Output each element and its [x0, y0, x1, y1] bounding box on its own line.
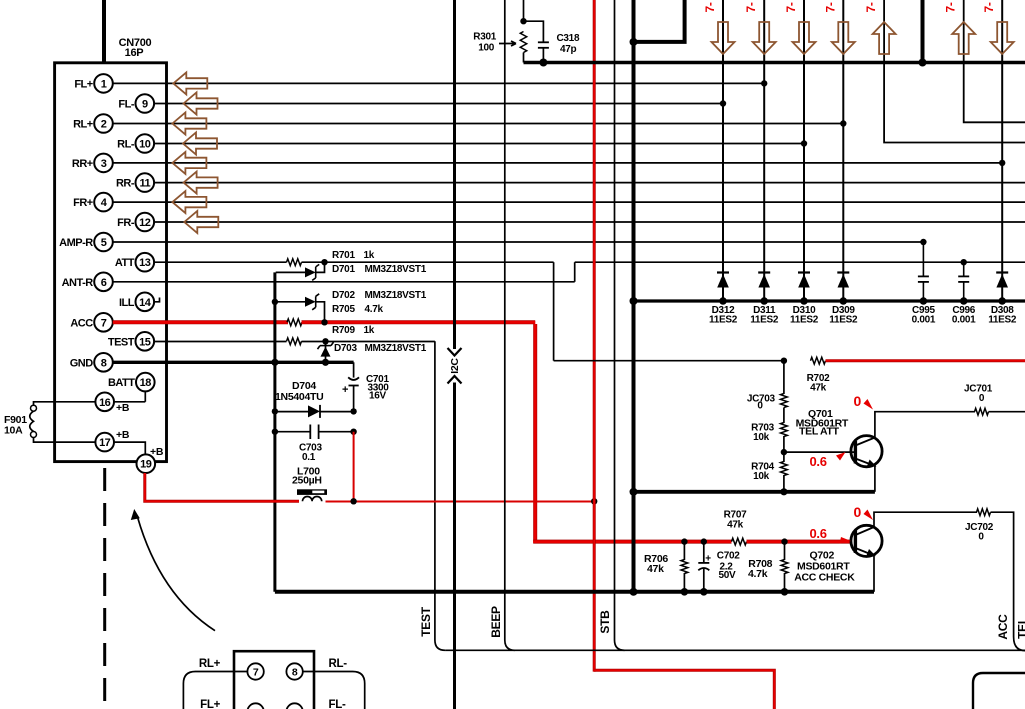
pin 6 ANT-R	[94, 273, 113, 292]
junction FL+ / D311 line	[761, 80, 767, 86]
junction RL+ / D309 line	[840, 120, 846, 126]
svg-text:+: +	[705, 554, 711, 565]
I2C bus vertical lower	[453, 383, 456, 709]
junction RR+ / D308 line	[999, 160, 1005, 166]
junction RL- / D310 line	[801, 140, 807, 146]
svg-text:+: +	[342, 384, 348, 396]
dashed vertical line below connector	[103, 468, 106, 709]
svg-text:ACC: ACC	[996, 614, 1010, 640]
wire ANT-R row	[113, 281, 575, 283]
svg-text:R705: R705	[332, 304, 355, 315]
curved arrow	[138, 517, 216, 631]
capacitor C318 47p	[538, 41, 549, 43]
wire GND row thick	[113, 361, 354, 364]
svg-text:1k: 1k	[364, 325, 375, 336]
wire GND line corner down to C701	[353, 362, 355, 377]
brown down arrow on wire x=804	[793, 22, 816, 54]
svg-text:ACC: ACC	[70, 317, 93, 329]
svg-text:2: 2	[101, 119, 107, 131]
wire C701 to +B node	[353, 386, 355, 412]
capacitor C995 0.001	[922, 242, 924, 276]
brown up arrow x=963	[952, 22, 975, 54]
svg-text:0.6: 0.6	[810, 526, 827, 541]
jumper JC701 0	[975, 408, 989, 415]
resistor R701 1k	[287, 259, 302, 266]
svg-text:ACC CHECK: ACC CHECK	[794, 572, 855, 584]
junction elbow on thick vertical	[630, 38, 638, 46]
wire R709 to TEST corner	[302, 341, 435, 343]
svg-text:FL+: FL+	[74, 78, 92, 90]
wire ATT jog down to TEL ATT line	[553, 262, 555, 361]
svg-text:STB: STB	[598, 610, 612, 634]
thick vertical bus (ILL net)	[632, 0, 636, 592]
GND bottom rail thick	[275, 590, 874, 594]
junction R704 bottom	[780, 488, 787, 495]
pin 12 FR-	[136, 213, 155, 232]
red line bottom elbow	[594, 670, 774, 709]
svg-text:250µH: 250µH	[292, 475, 322, 487]
vertical wire STB	[615, 0, 625, 650]
wire Q701 base	[784, 451, 856, 453]
diode D312 11ES2	[717, 271, 729, 273]
junction ACC / D702	[321, 319, 327, 325]
svg-text:16V: 16V	[369, 391, 387, 402]
wire JC702 to right corner down (ACC out)	[991, 512, 1025, 650]
wire ATT row to R701	[154, 261, 286, 263]
svg-text:10k: 10k	[753, 471, 770, 482]
svg-text:18: 18	[140, 377, 152, 389]
svg-text:MM3Z18VST1: MM3Z18VST1	[365, 290, 427, 301]
svg-text:0.1: 0.1	[302, 452, 316, 463]
pin 9 FL-	[136, 94, 155, 113]
junction matrix bus / thick vertical	[630, 297, 638, 305]
wire - pin18 to +B row	[144, 392, 146, 402]
svg-text:17: 17	[99, 437, 111, 449]
junction rail R708	[781, 588, 789, 596]
svg-text:8: 8	[101, 357, 107, 369]
svg-text:16P: 16P	[125, 47, 144, 59]
junction +B red at C701 branch	[350, 498, 356, 504]
junction GND / D703 anode	[322, 359, 329, 366]
wire ILL stub from pin14	[155, 298, 160, 302]
svg-text:ATT: ATT	[115, 257, 135, 269]
diode D309 11ES2	[837, 271, 849, 273]
svg-text:D702: D702	[332, 290, 355, 301]
svg-text:50V: 50V	[719, 570, 737, 581]
bottom connector pin row 2 circles (clipped)	[247, 703, 263, 709]
pin 7 ACC	[94, 313, 113, 332]
matrix wire D312	[722, 0, 724, 301]
main top bus	[524, 61, 1025, 64]
wire AMP-R row	[113, 241, 924, 243]
diode D311 11ES2	[758, 271, 770, 273]
resistor R709 1k	[287, 338, 302, 345]
transistor Q701 MSD601RT TEL ATT	[851, 436, 882, 467]
svg-text:10k: 10k	[753, 432, 770, 443]
svg-text:1: 1	[101, 78, 107, 90]
svg-text:7-: 7-	[784, 2, 798, 12]
svg-text:MM3Z18VST1: MM3Z18VST1	[365, 264, 427, 275]
wire with up arrow going right (x884)	[884, 0, 1025, 143]
svg-text:D703: D703	[334, 343, 357, 354]
junction ATT / D701	[321, 259, 327, 265]
wire ANT-R continues right on ATT level	[575, 261, 1025, 263]
pin 8 GND	[94, 353, 113, 372]
svg-text:0: 0	[978, 532, 984, 543]
junction R301/C318 top	[520, 18, 526, 24]
pin 10 RL-	[136, 134, 155, 153]
wire Q702 emitter down	[873, 554, 875, 592]
wire ACC red to R707	[533, 540, 731, 544]
wire Q701 collector up and right (JC701 line)	[875, 412, 975, 439]
svg-text:+B: +B	[116, 429, 130, 441]
svg-text:AMP-R: AMP-R	[59, 237, 93, 249]
svg-text:FL+: FL+	[200, 699, 220, 709]
matrix wire D311	[763, 0, 765, 301]
resistor R703 10k	[783, 408, 785, 424]
wire ACC red to Q702 base	[747, 540, 853, 544]
svg-text:5: 5	[101, 237, 107, 249]
brown down arrow on wire x=843.3	[832, 22, 855, 54]
pin 4 FR+	[94, 193, 113, 212]
brown left arrow speaker row	[172, 152, 206, 174]
red vertical line full height	[593, 0, 596, 672]
I2C bus vertical upper	[453, 0, 456, 349]
svg-text:RL-: RL-	[117, 139, 135, 151]
thick elbow link near top	[634, 0, 685, 42]
svg-text:BEEP: BEEP	[489, 606, 503, 638]
svg-text:D701: D701	[332, 264, 355, 275]
junction rail / thick vertical 633	[630, 588, 638, 596]
I2C marker upper chevron	[448, 348, 462, 356]
diode D310 11ES2	[798, 271, 810, 273]
wire RL- from pin8 curving down	[303, 672, 365, 709]
capacitor C701 3300 16V	[348, 377, 359, 380]
svg-text:7-: 7-	[944, 2, 958, 12]
wire RL+ row	[113, 123, 844, 125]
junction ACC / R708	[781, 538, 787, 544]
svg-text:12: 12	[139, 217, 151, 229]
svg-text:15: 15	[139, 336, 151, 348]
wire - feed from top into CN700	[102, 0, 106, 63]
wire +B red L700 to red vertical	[326, 501, 595, 503]
brown left arrow speaker row	[172, 113, 206, 135]
svg-text:FR-: FR-	[117, 217, 135, 229]
svg-text:9: 9	[142, 99, 148, 111]
junction rail C702	[700, 588, 708, 596]
svg-text:11ES2: 11ES2	[790, 315, 819, 326]
pin 15 TEST	[136, 332, 155, 351]
svg-text:R701: R701	[332, 250, 355, 261]
svg-text:1k: 1k	[364, 250, 375, 261]
wire - pin18 link down to pin16 row	[114, 401, 145, 403]
svg-text:6: 6	[101, 277, 107, 289]
wire ACC red from pin7 to R705	[113, 320, 288, 324]
wire RL+ from pin7 curving down	[183, 672, 247, 709]
wire - R301 top feed	[523, 0, 525, 22]
svg-text:I2C: I2C	[449, 358, 461, 374]
wire - fuse to pin16	[34, 402, 96, 405]
svg-text:0.001: 0.001	[952, 315, 976, 326]
svg-text:MM3Z18VST1: MM3Z18VST1	[365, 343, 427, 354]
svg-text:FL-: FL-	[118, 99, 134, 111]
svg-text:0: 0	[757, 401, 763, 412]
matrix wire D309	[842, 0, 844, 301]
resistor R707 47k on ACC line	[732, 538, 747, 545]
brown left arrow speaker row	[172, 191, 206, 213]
jumper JC702 0	[977, 509, 991, 516]
svg-text:7: 7	[101, 317, 107, 329]
wire Q702 collector up/right (JC702 line)	[874, 512, 977, 528]
svg-text:ILL: ILL	[119, 297, 135, 309]
zener diode D703 MM3Z18VST1	[325, 342, 327, 363]
bottom connector pin 8	[286, 663, 302, 679]
svg-text:RL+: RL+	[199, 658, 221, 670]
svg-text:1N5404TU: 1N5404TU	[275, 391, 323, 403]
junction GND / ground vertical	[271, 359, 278, 366]
svg-text:19: 19	[140, 459, 152, 471]
wire with up arrow going right (x963)	[964, 0, 1025, 122]
svg-text:RR+: RR+	[72, 158, 93, 170]
svg-text:7-: 7-	[744, 2, 758, 12]
svg-text:11ES2: 11ES2	[709, 315, 738, 326]
svg-text:R301: R301	[473, 32, 496, 43]
resistor R704 10k	[783, 452, 785, 462]
svg-text:47k: 47k	[727, 520, 744, 531]
pin 5 AMP-R	[94, 233, 113, 252]
Q701 emitter rail thick	[634, 490, 875, 494]
svg-text:3: 3	[101, 158, 107, 170]
junction TEL ATT / divider	[781, 358, 787, 364]
svg-text:100: 100	[478, 43, 495, 54]
I2C marker lower chevron	[448, 376, 462, 384]
connector CN700 body	[55, 63, 167, 462]
jumper JC703 0	[783, 361, 785, 394]
TEL ATT line to R702	[554, 360, 784, 362]
wire ANT-R jog up	[574, 262, 576, 282]
svg-text:13: 13	[139, 257, 151, 269]
junction ANT-R / C996	[961, 259, 967, 265]
svg-text:11ES2: 11ES2	[988, 315, 1017, 326]
svg-text:0: 0	[854, 393, 862, 409]
diode D308 11ES2	[996, 271, 1008, 273]
pin 19 circle	[137, 454, 156, 473]
svg-text:RR-: RR-	[116, 178, 135, 190]
wire FL+ row	[113, 82, 764, 84]
svg-text:TEL ATT: TEL ATT	[799, 426, 840, 438]
zener diode D701 MM3Z18VST1	[276, 271, 305, 273]
zener diode D702 MM3Z18VST1	[272, 299, 278, 305]
wire ACC red R705 to corner	[302, 320, 536, 324]
svg-text:R709: R709	[332, 325, 355, 336]
pin 13 ATT	[136, 253, 155, 272]
resistor R708 4.7k	[784, 542, 786, 560]
wire ACC red down	[533, 324, 537, 542]
pin 17 +B	[95, 433, 114, 452]
svg-text:7-: 7-	[703, 2, 717, 12]
svg-text:TEST: TEST	[108, 336, 135, 348]
wire +B red vertical C703 to L700 node	[353, 432, 355, 502]
bottom right rounded box	[973, 673, 1025, 709]
junction FL- / D312 line	[720, 100, 726, 106]
fuse F901 10A	[31, 405, 37, 411]
brown down arrow on wire x=764.2	[753, 22, 776, 54]
resistor R706 47k	[683, 542, 685, 560]
capacitor C996 0.001	[963, 262, 965, 276]
svg-text:10: 10	[139, 139, 151, 151]
wire - pin17 to pin19	[114, 442, 145, 454]
svg-text:RL+: RL+	[73, 119, 93, 131]
pin 18 BATT	[136, 373, 155, 392]
svg-text:C318: C318	[557, 33, 580, 44]
wire FR- row	[154, 221, 1025, 223]
capacitor C703 0.1	[275, 431, 310, 433]
svg-text:7-: 7-	[864, 2, 878, 12]
wire TEST row to R709	[154, 341, 286, 343]
svg-text:TEST: TEST	[419, 606, 433, 636]
junction ACC / C702	[701, 538, 707, 544]
brown left arrow speaker row	[173, 72, 207, 94]
junction C318 bottom on bus	[539, 59, 547, 67]
svg-text:16: 16	[99, 397, 111, 409]
wire - fuse to pin17	[34, 438, 96, 443]
diode D704 1N5404TU	[275, 411, 308, 413]
wire FL- row	[154, 103, 723, 105]
svg-text:47k: 47k	[810, 383, 827, 394]
wire C318 top link	[524, 21, 544, 42]
svg-text:GND: GND	[70, 357, 94, 369]
wire Q701 emitter down	[874, 464, 876, 492]
resistor R301 100 variable	[520, 32, 526, 53]
junction rail R706	[681, 588, 689, 596]
svg-text:4.7k: 4.7k	[365, 304, 384, 315]
svg-text:BATT: BATT	[108, 377, 135, 389]
pin 16 +B	[95, 393, 114, 412]
diode D308 11ES2 wire	[1001, 0, 1003, 301]
wire RR+ row	[113, 162, 1002, 164]
svg-text:0.001: 0.001	[912, 315, 936, 326]
brown left arrow speaker row	[184, 211, 218, 233]
svg-text:47k: 47k	[647, 563, 664, 575]
transistor Q702 MSD601RT ACC CHECK	[851, 525, 882, 556]
wire R701 to ATT jog	[302, 261, 554, 263]
svg-text:0: 0	[979, 393, 985, 404]
resistor R702 47k	[811, 357, 826, 364]
svg-text:RL-: RL-	[329, 658, 348, 670]
junction TEST / D703	[322, 338, 328, 344]
pin 3 RR+	[94, 154, 113, 173]
svg-text:7: 7	[253, 667, 259, 679]
svg-text:0.6: 0.6	[810, 454, 827, 469]
svg-text:FL-: FL-	[329, 699, 346, 709]
matrix wire D310	[803, 0, 805, 301]
bottom signal bus	[445, 649, 1025, 651]
ground vertical from D701 anode down to bottom rail	[273, 272, 276, 591]
svg-text:8: 8	[292, 667, 298, 679]
bottom connector body	[234, 651, 314, 709]
pin 14 ILL	[136, 293, 155, 312]
vertical wire BEEP	[505, 0, 515, 650]
junction rail / thick vertical	[630, 488, 638, 496]
pin 1 FL+	[94, 74, 113, 93]
brown down arrow on wire x=723	[712, 22, 735, 54]
junction Q701 base node	[783, 436, 785, 452]
junction AMP-R / C995	[920, 239, 926, 245]
wire RL- row	[154, 143, 804, 145]
svg-text:47p: 47p	[560, 44, 577, 55]
svg-text:10A: 10A	[4, 425, 23, 437]
junction ACC / R706	[681, 538, 687, 544]
brown left arrow speaker row	[184, 93, 218, 115]
wire FR+ row	[113, 201, 1025, 203]
svg-text:14: 14	[139, 297, 152, 309]
matrix bottom bus (thick)	[634, 299, 1025, 302]
svg-text:7-: 7-	[823, 2, 837, 12]
svg-text:TEL: TEL	[1016, 617, 1025, 639]
brown up arrow x=884	[873, 22, 896, 54]
wire RR- row	[154, 182, 1025, 184]
bottom connector pin 7	[247, 663, 263, 679]
svg-text:FR+: FR+	[73, 197, 93, 209]
red wire after R702 to edge	[826, 359, 1025, 362]
wire +B red from pin19	[145, 473, 299, 501]
brown left arrow speaker row	[183, 133, 217, 155]
svg-text:11: 11	[139, 178, 150, 190]
resistor R705 4.7k	[287, 319, 302, 326]
pin 2 RL+	[94, 114, 113, 133]
thick vertical from top to bus	[921, 0, 925, 63]
pin 11 RR-	[136, 173, 155, 192]
wire TEST down	[435, 341, 445, 650]
svg-text:C702: C702	[717, 551, 740, 562]
svg-text:+B: +B	[116, 402, 130, 414]
brown down arrow x=1002	[991, 22, 1014, 54]
junction +B red at red vertical	[591, 498, 597, 504]
svg-text:7-: 7-	[982, 2, 996, 12]
junction thick vertical / top bus	[919, 59, 927, 67]
svg-text:0: 0	[854, 504, 862, 520]
capacitor C702 2.2 50V electrolytic	[703, 542, 705, 563]
svg-text:ANT-R: ANT-R	[62, 277, 94, 289]
svg-text:11ES2: 11ES2	[829, 315, 858, 326]
svg-text:11ES2: 11ES2	[750, 315, 779, 326]
svg-text:4.7k: 4.7k	[748, 568, 768, 580]
brown left arrow speaker row	[184, 172, 218, 194]
